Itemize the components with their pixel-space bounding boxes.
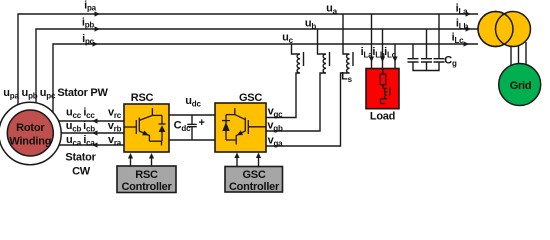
svg-text:Load: Load: [370, 111, 395, 123]
svg-text:RSC: RSC: [131, 92, 154, 104]
svg-text:vgb: vgb: [267, 120, 283, 134]
svg-text:uc: uc: [282, 32, 294, 46]
svg-text:ucc: ucc: [66, 107, 82, 121]
svg-text:Cg: Cg: [444, 55, 457, 69]
svg-text:ipb: ipb: [82, 17, 95, 30]
svg-text:Controller: Controller: [121, 181, 172, 193]
svg-text:Rotor: Rotor: [16, 122, 45, 134]
svg-text:vra: vra: [108, 134, 122, 148]
svg-text:icc: icc: [83, 107, 95, 121]
svg-text:Controller: Controller: [229, 181, 280, 193]
svg-text:udc: udc: [185, 95, 201, 109]
svg-text:iLb: iLb: [456, 18, 469, 32]
svg-text:vrc: vrc: [108, 107, 122, 121]
svg-text:vgc: vgc: [268, 106, 284, 120]
svg-text:+: +: [199, 117, 205, 129]
svg-text:vga: vga: [268, 135, 284, 149]
svg-text:GSC: GSC: [242, 169, 265, 181]
svg-text:Winding: Winding: [9, 136, 51, 148]
svg-text:ica: ica: [83, 134, 95, 148]
svg-text:ucb: ucb: [66, 120, 82, 134]
svg-text:CW: CW: [72, 166, 91, 178]
svg-text:upa: upa: [3, 87, 19, 101]
svg-text:ipa: ipa: [84, 0, 97, 13]
svg-text:iLc: iLc: [452, 32, 465, 46]
svg-text:GSC: GSC: [239, 92, 262, 104]
svg-text:uca: uca: [66, 134, 82, 148]
svg-text:vrb: vrb: [108, 120, 122, 134]
svg-text:RSC: RSC: [135, 169, 158, 181]
svg-text:Grid: Grid: [510, 80, 532, 92]
svg-text:Stator PW: Stator PW: [57, 87, 108, 99]
svg-text:icb: icb: [83, 120, 95, 134]
svg-text:ub: ub: [305, 18, 317, 32]
svg-text:Cdc: Cdc: [174, 120, 191, 134]
svg-text:iLa: iLa: [456, 3, 469, 17]
svg-text:ua: ua: [326, 3, 338, 17]
svg-text:Stator: Stator: [65, 151, 96, 163]
svg-text:Ls: Ls: [341, 71, 353, 85]
svg-text:ipc: ipc: [82, 33, 95, 46]
